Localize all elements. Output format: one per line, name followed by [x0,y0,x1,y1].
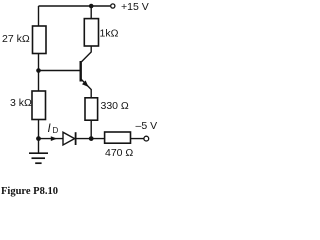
svg-text:I: I [48,123,52,135]
svg-text:+15 V: +15 V [121,1,149,13]
svg-text:470 Ω: 470 Ω [105,147,133,159]
svg-text:27 kΩ: 27 kΩ [2,33,30,45]
svg-text:3 kΩ: 3 kΩ [10,97,32,109]
svg-text:D: D [53,126,59,135]
svg-text:–5 V: –5 V [136,120,158,132]
svg-text:Figure P8.10: Figure P8.10 [1,186,58,197]
svg-text:1kΩ: 1kΩ [100,28,119,40]
svg-text:330 Ω: 330 Ω [101,100,129,112]
